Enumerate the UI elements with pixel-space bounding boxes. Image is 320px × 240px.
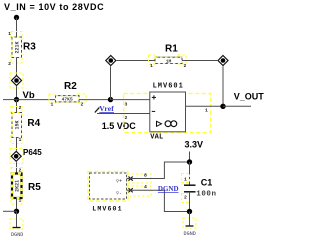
wire V_IN node to R3 bbox=[16, 18, 18, 38]
test point diamond on Vb rail bbox=[10, 73, 23, 88]
svg-text:1: 1 bbox=[150, 63, 153, 69]
node 3.3V junction bbox=[187, 159, 192, 164]
wire diamond to R1 bbox=[117, 60, 155, 62]
svg-text:47K5: 47K5 bbox=[62, 97, 73, 103]
wire node up to test point bbox=[110, 86, 112, 99]
svg-text:DGND: DGND bbox=[11, 232, 23, 238]
test point diamond left of R1 bbox=[106, 56, 116, 66]
svg-text:DGND: DGND bbox=[184, 231, 196, 237]
svg-text:1: 1 bbox=[51, 101, 54, 107]
svg-text:2: 2 bbox=[184, 195, 187, 201]
op-amp U1 highlight bbox=[124, 94, 211, 133]
svg-text:V_OUT: V_OUT bbox=[234, 91, 265, 101]
wire left stub at ground node bbox=[3, 210, 17, 212]
wire C1 to ground node bbox=[189, 192, 191, 212]
node ground junction right bbox=[187, 209, 192, 214]
svg-text:2: 2 bbox=[184, 63, 187, 69]
wire test point to Vb bbox=[16, 86, 18, 99]
net stub Vref bbox=[95, 107, 100, 112]
ground DGND left bbox=[10, 211, 23, 238]
node V_IN junction bbox=[14, 15, 19, 20]
wire Vb to R2 bbox=[17, 99, 56, 101]
op-amp U1 LMV601 bbox=[150, 92, 186, 132]
svg-text:R3: R3 bbox=[23, 41, 36, 52]
node V_OUT junction bbox=[220, 104, 225, 109]
wire Vref to op-amp - input bbox=[97, 113, 150, 115]
svg-text:LMV601: LMV601 bbox=[92, 206, 122, 213]
svg-text:C1: C1 bbox=[201, 178, 213, 188]
wire R1 to right diamond bbox=[182, 60, 217, 62]
svg-text:2K21: 2K21 bbox=[15, 180, 21, 192]
svg-text:V_IN = 10V to 28VDC: V_IN = 10V to 28VDC bbox=[4, 2, 104, 12]
svg-text:1M: 1M bbox=[166, 58, 172, 64]
node ground junction left bbox=[14, 209, 19, 214]
wire Vb down to R4 bbox=[16, 100, 18, 113]
wire R4 to test point P645 bbox=[16, 138, 18, 151]
resistor R3 bbox=[8, 31, 22, 67]
wire node to V_OUT bbox=[223, 105, 251, 107]
svg-text:1: 1 bbox=[205, 108, 208, 114]
wire P645 to R5 bbox=[16, 162, 18, 173]
svg-text:1: 1 bbox=[19, 198, 22, 204]
svg-text:Vref: Vref bbox=[99, 104, 114, 113]
node Vb bbox=[14, 97, 19, 102]
test point diamond right of R1 bbox=[218, 56, 228, 66]
test point P645 bbox=[10, 149, 23, 164]
svg-text:221K: 221K bbox=[15, 41, 21, 53]
pin V- no-connect X bbox=[129, 188, 133, 192]
resistor R2 bbox=[49, 94, 86, 107]
svg-text:2: 2 bbox=[19, 168, 22, 174]
svg-text:1: 1 bbox=[19, 137, 22, 143]
svg-text:2: 2 bbox=[19, 105, 22, 111]
svg-text:P645: P645 bbox=[23, 148, 42, 157]
resistor R5 bbox=[11, 168, 22, 205]
svg-text:R4: R4 bbox=[27, 118, 40, 129]
wire R3 to test point bbox=[16, 58, 18, 76]
node R2/R1/op-amp junction bbox=[108, 97, 113, 102]
svg-text:2: 2 bbox=[81, 101, 84, 107]
capacitor C1 bbox=[182, 174, 196, 203]
resistor R4 bbox=[11, 105, 22, 144]
wire V+ pin bbox=[127, 162, 190, 179]
svg-text:100n: 100n bbox=[196, 191, 216, 199]
op-amp power unit highlight bbox=[88, 172, 128, 202]
svg-text:R2: R2 bbox=[64, 81, 77, 92]
svg-text:15K: 15K bbox=[15, 120, 21, 129]
svg-text:1.5 VDC: 1.5 VDC bbox=[102, 121, 137, 131]
resistor R1 bbox=[149, 55, 187, 69]
wire R5 to ground node bbox=[16, 198, 18, 211]
svg-text:DGND: DGND bbox=[158, 185, 179, 193]
svg-text:4: 4 bbox=[144, 184, 147, 190]
op-amp power unit LMV601 bbox=[90, 173, 127, 199]
svg-text:▽-: ▽- bbox=[116, 190, 122, 196]
svg-text:R5: R5 bbox=[28, 182, 41, 193]
wire op-amp output to node bbox=[186, 105, 224, 107]
svg-text:1: 1 bbox=[184, 177, 187, 183]
wire right diamond down to output node bbox=[222, 66, 224, 106]
wire left stub at Vb bbox=[3, 99, 17, 101]
svg-text:VAL: VAL bbox=[150, 133, 163, 141]
svg-text:3.3V: 3.3V bbox=[185, 140, 204, 150]
pin V+ no-connect X bbox=[129, 177, 133, 181]
wire node to op-amp + input bbox=[111, 99, 150, 101]
svg-text:8: 8 bbox=[144, 173, 147, 179]
svg-text:R1: R1 bbox=[165, 44, 178, 55]
svg-text:LMV601: LMV601 bbox=[153, 83, 184, 91]
wire V- pin to DGND net bbox=[127, 190, 190, 211]
svg-text:1: 1 bbox=[8, 31, 11, 37]
wire 3.3V node to C1 bbox=[189, 162, 191, 185]
wire R2 to node bbox=[79, 99, 111, 101]
ground DGND right bbox=[183, 212, 196, 237]
svg-text:3: 3 bbox=[125, 101, 128, 107]
svg-text:▽+: ▽+ bbox=[116, 178, 122, 184]
svg-text:2: 2 bbox=[8, 61, 11, 67]
